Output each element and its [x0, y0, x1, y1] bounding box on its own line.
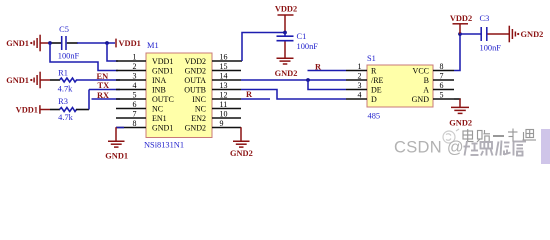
svg-text:VDD2: VDD2	[275, 5, 297, 14]
capacitor C1	[277, 32, 319, 51]
S1 pin names	[371, 66, 429, 104]
power symbol VDD2 (top middle)	[275, 5, 297, 33]
svg-text:INC: INC	[192, 95, 206, 104]
svg-text:12: 12	[220, 91, 228, 100]
svg-text:GND: GND	[412, 95, 430, 104]
svg-text:1: 1	[358, 62, 362, 71]
svg-text:11: 11	[220, 100, 228, 109]
svg-text:2: 2	[358, 72, 362, 81]
wire	[50, 42, 61, 44]
node junction on OUTA wire	[306, 78, 310, 82]
wire net EN	[76, 79, 120, 81]
svg-text:485: 485	[368, 111, 381, 120]
svg-text:C1: C1	[297, 32, 307, 41]
svg-text:VDD1: VDD1	[119, 39, 141, 48]
svg-text:NC: NC	[195, 104, 206, 113]
svg-text:6: 6	[440, 81, 444, 90]
svg-text:100nF: 100nF	[480, 43, 502, 52]
svg-text:10: 10	[220, 110, 228, 119]
capacitor C3	[480, 14, 502, 53]
ground GND1 under M1 pin 8	[105, 127, 128, 160]
power symbol VDD1 (row R3)	[16, 105, 50, 114]
svg-text:3: 3	[133, 72, 137, 81]
svg-text:EN1: EN1	[152, 114, 167, 123]
svg-text:VDD2: VDD2	[185, 57, 206, 66]
wire OUTA to /RE	[241, 79, 346, 81]
svg-text:15: 15	[220, 62, 228, 71]
svg-text:A: A	[423, 85, 429, 94]
svg-text:2: 2	[133, 62, 137, 71]
svg-text:D: D	[371, 95, 377, 104]
power ground symbol GND1 (row EN)	[6, 72, 50, 89]
ground GND2 under S1 pin 5	[449, 99, 472, 128]
svg-text:GND2: GND2	[521, 30, 544, 39]
M1 left pin numbers	[133, 53, 137, 129]
svg-text:GND1: GND1	[152, 123, 173, 132]
svg-text:16: 16	[220, 53, 228, 62]
svg-text:7: 7	[440, 72, 444, 81]
svg-text:6: 6	[133, 100, 137, 109]
svg-text:VDD2: VDD2	[450, 14, 472, 23]
power ground symbol GND1 (top left)	[6, 35, 50, 52]
wire OUTB to D	[241, 90, 346, 100]
watermark big CJK handle	[464, 141, 527, 156]
svg-text:GND1: GND1	[105, 151, 128, 160]
S1 left pin stubs	[346, 71, 367, 100]
S1 right pin stubs	[433, 71, 454, 100]
node junction at C5 left	[48, 41, 52, 45]
svg-text:GND1: GND1	[6, 76, 29, 85]
watermark small CJK text (electronics watermark)	[463, 129, 536, 143]
svg-text:/RE: /RE	[371, 76, 384, 85]
svg-text:GND2: GND2	[230, 149, 253, 158]
S1 right pin numbers	[440, 62, 444, 100]
svg-text:1: 1	[133, 53, 137, 62]
node junction VDD1	[105, 41, 109, 45]
wire to C3	[460, 33, 481, 35]
svg-text:DE: DE	[371, 85, 382, 94]
svg-text:GND1: GND1	[152, 66, 173, 75]
svg-text:OUTB: OUTB	[184, 85, 206, 94]
node junction VDD2 right	[458, 32, 462, 36]
wire	[67, 42, 78, 44]
node junction VDD2/C1	[283, 31, 287, 35]
svg-text:8: 8	[440, 62, 444, 71]
resistor R3 4.7k	[50, 97, 77, 122]
svg-text:R: R	[315, 62, 322, 71]
svg-text:VDD1: VDD1	[152, 57, 173, 66]
power symbol VDD2 (top right)	[450, 14, 472, 34]
svg-text:B: B	[424, 76, 429, 85]
svg-text:8: 8	[133, 119, 137, 128]
IC M1 NSi8131N1 digital isolator	[144, 41, 212, 149]
wire net RX	[92, 98, 121, 100]
ground GND2 under C1	[275, 42, 298, 78]
svg-text:GND2: GND2	[449, 118, 472, 127]
wire net TX	[89, 89, 120, 91]
svg-text:R: R	[246, 90, 253, 99]
M1 left pin stubs	[116, 61, 146, 128]
M1 pin names right	[184, 57, 206, 133]
svg-text:R: R	[371, 66, 377, 75]
wire net R at INC	[241, 98, 270, 100]
wire VCC to VDD2	[454, 34, 460, 71]
power ground symbol GND2 (top right)	[488, 26, 544, 43]
M1 pin names left	[152, 57, 174, 133]
svg-text:GND2: GND2	[185, 123, 206, 132]
svg-text:100nF: 100nF	[297, 42, 319, 51]
svg-text:4.7k: 4.7k	[58, 85, 73, 94]
svg-text:S1: S1	[367, 54, 376, 63]
svg-text:13: 13	[220, 81, 228, 90]
svg-text:5: 5	[440, 91, 444, 100]
svg-text:TX: TX	[98, 81, 110, 90]
svg-text:4: 4	[358, 91, 362, 100]
svg-text:INB: INB	[152, 85, 166, 94]
svg-text:NC: NC	[152, 104, 163, 113]
svg-text:R1: R1	[58, 69, 68, 78]
watermark logo	[443, 129, 459, 143]
svg-text:GND2: GND2	[185, 66, 206, 75]
capacitor C5	[58, 25, 80, 60]
wire R3 to TX	[76, 109, 89, 111]
IC S1 485 transceiver	[367, 54, 433, 121]
svg-text:4.7k: 4.7k	[58, 113, 73, 122]
svg-text:100nF: 100nF	[58, 51, 80, 60]
S1 left pin numbers	[358, 62, 362, 100]
svg-text:3: 3	[358, 81, 362, 90]
svg-text:RX: RX	[97, 91, 109, 100]
M1 right pin numbers	[220, 53, 228, 129]
svg-text:VCC: VCC	[413, 66, 429, 75]
ground GND2 under M1 pin 9	[230, 127, 253, 158]
svg-text:5: 5	[133, 91, 137, 100]
wire junction to DE	[308, 80, 346, 90]
wire GND1 to pin 2	[50, 43, 118, 71]
wire pin16 to VDD2	[242, 33, 285, 62]
watermark band	[541, 129, 550, 164]
power symbol VDD1 (top)	[116, 39, 141, 48]
svg-text:OUTC: OUTC	[152, 95, 174, 104]
svg-text:M1: M1	[147, 41, 159, 50]
svg-text:EN2: EN2	[191, 114, 206, 123]
svg-text:9: 9	[220, 119, 224, 128]
svg-text:R3: R3	[58, 97, 68, 106]
svg-text:VDD1: VDD1	[16, 105, 38, 114]
M1 right pin stubs	[212, 61, 242, 128]
svg-text:4: 4	[133, 81, 137, 90]
resistor R1 4.7k	[50, 69, 77, 94]
svg-text:INA: INA	[152, 76, 166, 85]
svg-text:GND1: GND1	[6, 39, 29, 48]
wire net R to S1 pin 1	[308, 70, 347, 72]
svg-text:C3: C3	[480, 14, 490, 23]
svg-text:7: 7	[133, 110, 137, 119]
svg-text:NSi8131N1: NSi8131N1	[144, 140, 184, 149]
svg-text:C5: C5	[59, 25, 69, 34]
svg-text:GND2: GND2	[275, 69, 298, 78]
svg-text:CSDN @: CSDN @	[394, 139, 464, 157]
svg-text:OUTA: OUTA	[184, 76, 206, 85]
svg-text:14: 14	[220, 72, 228, 81]
wire VDD1 to pin 1	[107, 43, 118, 61]
svg-text:EN: EN	[97, 72, 109, 81]
